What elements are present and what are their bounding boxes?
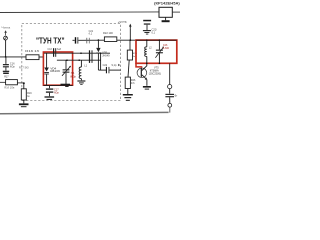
ground under U1 — [165, 17, 167, 20]
svg-text:ЗЧ049: ЗЧ049 — [102, 55, 110, 58]
wire tank bottom under red edge — [44, 84, 73, 86]
node output circle 2 — [168, 103, 172, 107]
wire R24 to R26 — [128, 60, 129, 77]
capacitor C27 — [165, 94, 174, 95]
svg-text:б,1: б,1 — [89, 32, 93, 35]
wire from U1 right — [172, 11, 180, 13]
svg-text:(2SC2026): (2SC2026) — [149, 72, 161, 75]
diode VD5 — [98, 39, 100, 41]
svg-text:R16 1б: R16 1б — [25, 49, 40, 53]
resistor R24 — [129, 40, 131, 50]
wire mid-left horizontal — [0, 56, 26, 58]
svg-text:9,1р: 9,1р — [112, 64, 117, 67]
wire top supply rail — [0, 11, 159, 14]
dashed block boundary — [22, 24, 121, 101]
inductor L1 — [80, 60, 82, 67]
svg-text:800р: 800р — [70, 76, 76, 79]
arrow at dashed edge — [118, 64, 120, 66]
wire C22 net — [98, 69, 106, 71]
input connector circle — [4, 36, 8, 40]
node C26 bottom junction — [159, 63, 161, 65]
resistor R17 — [6, 80, 18, 85]
variable capacitor C26 — [159, 39, 161, 41]
wire tank second — [57, 59, 101, 61]
red highlight box 2 — [136, 40, 177, 63]
wire supply drop — [129, 29, 131, 40]
node junction R17/R19 — [23, 82, 25, 84]
capacitor C16 — [5, 57, 7, 64]
wire R17 left stub — [0, 81, 6, 83]
svg-text:бОр: бОр — [54, 92, 59, 95]
wire link to C22 net — [100, 53, 102, 70]
capacitor C22 — [106, 67, 107, 73]
inductor L2 — [146, 39, 148, 41]
wire output drop — [169, 63, 171, 84]
ground marks under box1 — [61, 84, 71, 86]
svg-text:"ТУН ТХ": "ТУН ТХ" — [36, 36, 65, 45]
ground of C19 — [45, 96, 55, 97]
svg-text:КВ109: КВ109 — [50, 70, 60, 73]
ground of L1 — [77, 80, 85, 81]
ground of C23 — [143, 30, 151, 31]
ground of R26 — [127, 89, 129, 95]
ground of C16 — [3, 71, 9, 72]
node collector junction — [146, 63, 148, 65]
capacitor C23 — [143, 20, 151, 22]
wire R22 to supply node — [117, 39, 136, 41]
resistor R22 — [104, 37, 116, 42]
wire R17 right stub — [17, 82, 23, 84]
capacitor C19 — [49, 86, 51, 89]
svg-text:0,1: 0,1 — [152, 30, 156, 34]
capacitor C20 — [89, 50, 90, 63]
supply arrow — [129, 25, 131, 29]
svg-text:С18: С18 — [47, 48, 52, 51]
resistor R16 — [26, 55, 39, 60]
capacitor C18 — [53, 48, 54, 57]
ground of R19 — [23, 100, 25, 103]
node junction — [5, 56, 7, 58]
input arrow — [5, 32, 7, 36]
wire under box2 top — [136, 39, 177, 41]
transistor VT5 — [137, 68, 147, 78]
svg-text:С22: С22 — [103, 64, 108, 67]
svg-text:R17 5Ю: R17 5Ю — [19, 66, 29, 70]
regulator U1 box — [159, 7, 172, 17]
svg-text:6н8: 6н8 — [57, 48, 62, 51]
ground of VT5 emitter — [143, 86, 151, 88]
red highlight box 1 — [43, 52, 72, 85]
resistor R19 — [23, 83, 25, 89]
svg-text:6-600: 6-600 — [163, 47, 170, 50]
node output circle 1 — [168, 85, 172, 89]
red stub to base — [136, 63, 142, 67]
wire tank top — [44, 52, 110, 54]
wire input drop — [5, 40, 7, 57]
svg-text:(КР142ЕН5А): (КР142ЕН5А) — [154, 2, 180, 6]
svg-text:бОр: бОр — [10, 66, 15, 69]
svg-text:R1б 1Ов: R1б 1Ов — [4, 87, 15, 90]
svg-text:Чипа: Чипа — [1, 25, 10, 29]
svg-text:R22 100: R22 100 — [103, 31, 113, 35]
wire R16 to box — [39, 56, 44, 58]
varactor VD4 — [46, 53, 48, 67]
capacitor C21 — [73, 39, 75, 41]
wire bottom gray rail — [0, 112, 169, 113]
variable capacitor in box 1 — [65, 60, 67, 69]
resistor R26 — [125, 77, 130, 88]
svg-text:R17: R17 — [4, 75, 9, 78]
